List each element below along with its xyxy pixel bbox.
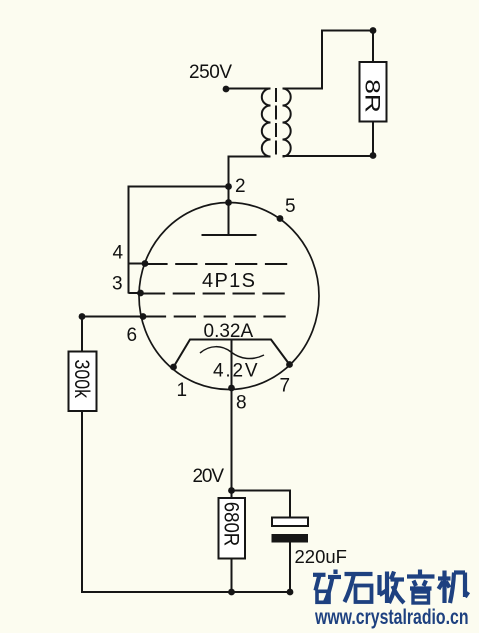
svg-text:www.crystalradio.cn: www.crystalradio.cn — [314, 606, 468, 629]
svg-text:2: 2 — [235, 176, 246, 197]
svg-text:0.32A: 0.32A — [204, 321, 254, 342]
svg-text:1: 1 — [177, 380, 188, 401]
svg-text:4P1S: 4P1S — [202, 270, 255, 292]
svg-text:220uF: 220uF — [295, 546, 347, 567]
svg-text:4.2V: 4.2V — [213, 361, 258, 382]
svg-text:3: 3 — [112, 274, 123, 295]
svg-text:5: 5 — [285, 196, 296, 217]
svg-text:4: 4 — [113, 243, 124, 264]
svg-text:300k: 300k — [70, 359, 93, 398]
svg-text:6: 6 — [127, 325, 138, 346]
svg-text:250V: 250V — [189, 62, 232, 83]
svg-text:680R: 680R — [219, 502, 242, 547]
svg-text:20V: 20V — [193, 466, 225, 487]
svg-text:8: 8 — [236, 393, 247, 414]
svg-text:7: 7 — [280, 376, 291, 397]
svg-text:8R: 8R — [361, 79, 384, 113]
